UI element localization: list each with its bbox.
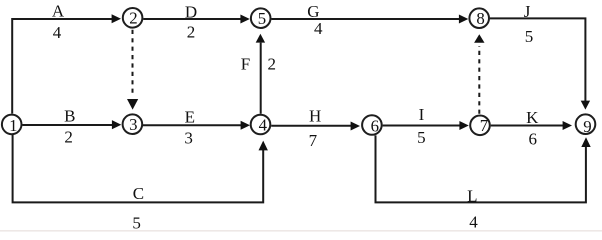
node 5 — [251, 8, 271, 28]
svg-text:1: 1 — [9, 116, 17, 135]
node 3 — [123, 114, 143, 134]
svg-text:9: 9 — [583, 117, 591, 136]
wire activity C (1-4) — [13, 135, 268, 202]
svg-text:3: 3 — [184, 129, 193, 148]
node 4 — [251, 115, 271, 135]
svg-text:4: 4 — [469, 213, 478, 232]
svg-text:4: 4 — [259, 116, 268, 135]
wire activity B (1-3) — [22, 120, 121, 129]
wire activity E (3-4) — [143, 121, 250, 130]
svg-text:2: 2 — [129, 9, 137, 28]
wire dummy (2-3) dashed — [127, 30, 138, 110]
svg-text:5: 5 — [417, 128, 426, 147]
svg-text:5: 5 — [258, 9, 266, 28]
svg-text:J: J — [524, 2, 531, 21]
node 1 — [2, 115, 22, 135]
wire activity F (4-5) — [256, 34, 265, 114]
svg-text:H: H — [309, 107, 321, 126]
wire dummy (7-8) dashed — [474, 34, 484, 114]
wire activity K (7-9) — [491, 121, 572, 130]
node 9 — [576, 114, 596, 136]
svg-text:7: 7 — [480, 116, 488, 135]
svg-text:6: 6 — [529, 130, 538, 149]
svg-text:5: 5 — [525, 27, 534, 46]
svg-text:C: C — [133, 184, 144, 203]
svg-text:B: B — [64, 106, 75, 125]
wire activity H (4-6) — [271, 122, 360, 131]
svg-text:D: D — [185, 2, 197, 21]
node 8 — [469, 8, 489, 28]
node 7 — [470, 116, 490, 136]
svg-text:2: 2 — [64, 128, 73, 147]
svg-text:2: 2 — [187, 23, 196, 42]
wire activity D (2-5) — [143, 15, 250, 24]
svg-text:8: 8 — [476, 9, 484, 28]
svg-text:4: 4 — [53, 23, 62, 42]
svg-text:A: A — [52, 2, 65, 21]
wire activity J (8-9) — [490, 18, 590, 109]
svg-text:6: 6 — [371, 117, 379, 136]
node 6 — [362, 115, 382, 135]
svg-text:L: L — [467, 187, 477, 206]
svg-text:K: K — [526, 108, 539, 127]
svg-text:7: 7 — [309, 131, 318, 150]
svg-text:F: F — [241, 54, 250, 73]
wire activity G (5-8) — [271, 15, 468, 24]
svg-text:5: 5 — [132, 213, 141, 232]
svg-text:3: 3 — [129, 115, 137, 134]
wire activity A (1-2) — [12, 14, 121, 113]
wire activity L (6-9) — [376, 135, 591, 202]
svg-text:I: I — [419, 105, 425, 124]
svg-text:E: E — [185, 107, 195, 126]
node 2 — [123, 8, 143, 28]
svg-text:4: 4 — [314, 19, 323, 38]
wire activity I (6-7) — [383, 121, 469, 130]
svg-text:2: 2 — [268, 54, 277, 73]
